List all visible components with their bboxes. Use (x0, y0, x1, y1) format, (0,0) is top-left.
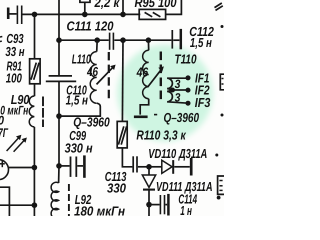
cut dot right edge (221, 25, 224, 28)
capacitor C111 (109, 33, 111, 50)
inductor L90 (29, 96, 34, 127)
trimmer arrow T110 (148, 68, 162, 86)
wire (166, 0, 182, 14)
cut dot right (215, 154, 218, 157)
svg-text:Q–3960: Q–3960 (164, 110, 200, 125)
wire to L110 bottom (59, 103, 100, 116)
capacitor C93 plates (16, 6, 18, 25)
svg-text:Т110: Т110 (175, 52, 198, 67)
svg-text:0 мкГн: 0 мкГн (0, 104, 28, 118)
svg-text:330: 330 (107, 181, 127, 196)
svg-text:VD110 Д311А: VD110 Д311А (148, 146, 207, 161)
node junction dot (146, 202, 152, 208)
photodiode circle (0, 160, 9, 180)
wire (34, 84, 36, 96)
node junction dot (82, 12, 88, 18)
T110 secondary winding 2 (167, 91, 172, 101)
wire top bus (23, 13, 141, 15)
wire stub up (122, 0, 124, 14)
dash mark (154, 114, 157, 116)
transformer T110 primary (147, 40, 149, 50)
wire (10, 13, 17, 15)
cut dot right edge (221, 114, 224, 117)
svg-text:46: 46 (136, 64, 149, 79)
capacitor C112 (171, 30, 173, 49)
inductor L92 (58, 166, 60, 183)
ground bar (134, 116, 148, 119)
node junction dot (32, 12, 38, 18)
node junction dot (146, 164, 152, 170)
wire C111 bus (59, 39, 109, 41)
svg-text:2,2 к: 2,2 к (94, 0, 121, 10)
capacitor C93 terminal bar (7, 8, 10, 20)
resistor R91 (34, 14, 36, 58)
wire (114, 39, 171, 41)
wire center column (58, 0, 60, 76)
svg-text:33 н: 33 н (5, 44, 24, 59)
wire (8, 167, 34, 169)
node junction dot (56, 113, 62, 119)
node junction dot (120, 12, 126, 18)
svg-text:330 н: 330 н (65, 141, 93, 156)
node junction dot T110 (146, 37, 152, 43)
trimmer arrow L110 (97, 66, 115, 84)
cut mark left edge (0, 36, 2, 39)
svg-text:R110 3,3 к: R110 3,3 к (136, 128, 186, 143)
capacitor C99 (56, 163, 62, 169)
node junction dot C111 branch (56, 37, 62, 43)
LED arrows (7, 135, 27, 152)
svg-text:1,5 н: 1,5 н (190, 35, 212, 50)
svg-text:46: 46 (86, 64, 98, 79)
svg-text:R95 100: R95 100 (135, 0, 178, 10)
resistor 2,2k partial top (84, 2, 86, 14)
capacitor C110 (49, 75, 72, 77)
resistor R110 (121, 40, 124, 121)
wire T110 bottom (140, 99, 149, 115)
wire (138, 166, 149, 168)
core of T110 (160, 52, 162, 102)
node IF3 dot (186, 101, 191, 106)
diode VD110 (149, 166, 162, 168)
svg-text:180 мкГн: 180 мкГн (74, 203, 125, 216)
capacitor C113 (132, 156, 134, 172)
svg-text:1 н: 1 н (180, 203, 192, 216)
svg-text:3: 3 (175, 77, 181, 91)
svg-text:IF3: IF3 (195, 95, 211, 110)
wire (58, 81, 60, 165)
wire (122, 148, 132, 167)
svg-text:7Г: 7Г (0, 126, 9, 140)
svg-text:100: 100 (6, 71, 23, 86)
inductor L110 (96, 40, 99, 51)
connector box right edge upper (220, 74, 224, 90)
green highlight ellipse (117, 45, 213, 142)
svg-text:С111 120: С111 120 (67, 18, 115, 33)
svg-text:3: 3 (175, 90, 181, 104)
node junction dot (32, 202, 38, 208)
resistor R95 (139, 9, 165, 19)
wire bottom left corner (0, 187, 9, 216)
node junction dot (32, 165, 38, 171)
node center tap junction (170, 88, 175, 93)
capacitor C114 (149, 204, 160, 206)
core of L90 (42, 97, 44, 128)
node IF1 dot (186, 75, 191, 80)
node junction dot L110 (94, 37, 100, 43)
connector box right edge lower (218, 176, 224, 194)
cut symbol top right (215, 3, 222, 8)
svg-text:1,5 н: 1,5 н (66, 92, 89, 107)
T110 secondary winding 1 (167, 77, 188, 79)
svg-text:Q–3960: Q–3960 (73, 115, 110, 130)
wire (33, 127, 35, 216)
wire (0, 204, 34, 206)
paper background (0, 0, 224, 216)
node dot right edge lower (217, 196, 221, 200)
core of L110 (108, 52, 110, 101)
node IF2 dot (186, 88, 191, 93)
diode VD111 (148, 167, 150, 175)
node junction dot R110 (120, 37, 126, 43)
